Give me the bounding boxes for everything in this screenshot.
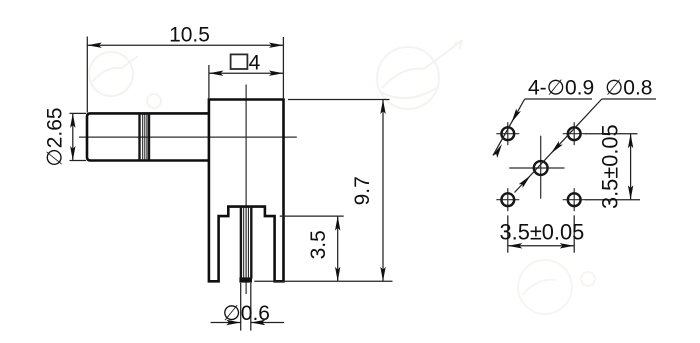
leader dia0.8 [515, 99, 602, 193]
svg-text:3.5±0.05: 3.5±0.05 [500, 220, 585, 245]
dimension 3.5±0.05 vertical [585, 134, 640, 200]
dimension dia 0.6 [211, 283, 284, 331]
center pin [241, 207, 251, 279]
svg-text:4-∅0.9: 4-∅0.9 [528, 77, 594, 100]
barrel outline [87, 113, 209, 160]
watermark logo middle [377, 47, 439, 109]
dimension dia 2.65 [70, 113, 87, 160]
hole BL [501, 193, 514, 206]
watermark logo bottom right [518, 260, 572, 314]
leader 4-dia0.9 [493, 99, 525, 155]
watermark logo left [89, 52, 133, 96]
hole center [534, 161, 548, 175]
dimension 3.5±0.05 horizontal [508, 215, 574, 252]
center line horizontal (barrel axis) [79, 136, 297, 138]
center hole long crosshair [509, 167, 564, 169]
body outline with legs [209, 100, 284, 282]
svg-text:∅0.6: ∅0.6 [223, 302, 271, 325]
barrel groove [140, 114, 150, 161]
dimension 10.5 [87, 37, 283, 113]
hole BR [568, 193, 581, 206]
svg-text:10.5: 10.5 [169, 23, 210, 46]
svg-text:∅0.8: ∅0.8 [605, 77, 653, 100]
svg-text:9.7: 9.7 [351, 176, 374, 205]
svg-text:∅2.65: ∅2.65 [44, 107, 67, 166]
svg-text:3.5±0.05: 3.5±0.05 [598, 124, 623, 209]
hole TL [501, 127, 514, 140]
svg-text:4: 4 [249, 51, 261, 74]
dimension square-4 [209, 65, 284, 98]
center line vertical (body axis) [245, 85, 247, 295]
dimension 3.5 (leg) [280, 216, 344, 281]
dimension 9.7 [254, 100, 392, 282]
svg-text:3.5: 3.5 [307, 230, 330, 259]
hole TR [568, 127, 581, 140]
hole crosshairs [496, 122, 585, 211]
